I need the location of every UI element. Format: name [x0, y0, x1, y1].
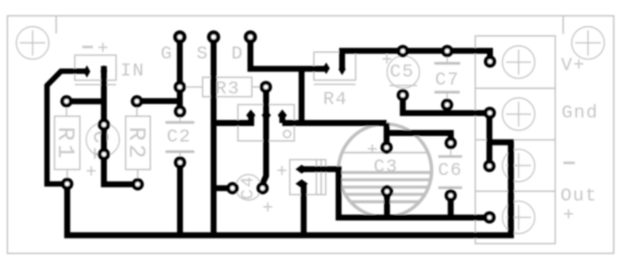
wire IN+ through C1 to R2 bottom [104, 66, 138, 184]
capacitor C2 outline [166, 111, 195, 162]
connector OUT outline [290, 160, 326, 195]
label C5 plus [381, 50, 392, 71]
pad terminal minus [483, 160, 495, 172]
pad C1 bottom [98, 148, 110, 160]
wire C5- to Gnd pad [403, 95, 490, 113]
pad R2 top [131, 95, 143, 107]
label Out plus [563, 205, 574, 226]
label C4 plus [262, 198, 273, 219]
wire R3 right to Q1 pin2 and C4 right [263, 87, 267, 188]
connector IN outline [75, 55, 116, 85]
label IN polarity - + [97, 39, 108, 60]
label R1 [51, 127, 78, 162]
wire OUT- pin to ground bus [301, 184, 307, 236]
mounting hole left [16, 27, 49, 60]
terminal block outline [475, 36, 555, 244]
wire D branch to Q1 pin3 and C3+ [282, 69, 386, 148]
svg-text:R4: R4 [323, 89, 348, 110]
pad C6 bottom [445, 189, 457, 201]
svg-text:S: S [197, 43, 208, 64]
pad R4 right diamond [339, 64, 346, 76]
wire R1 top to IN+ [67, 98, 105, 104]
capacitor C6 outline [438, 143, 462, 196]
pad R4 left diamond [323, 63, 330, 75]
pad S [207, 30, 220, 43]
board edge tick left [55, 16, 57, 34]
pad C4 right [256, 182, 268, 194]
label C1 plus [86, 162, 97, 183]
mounting hole right [572, 27, 605, 60]
pad D [244, 30, 257, 43]
label D [231, 43, 242, 64]
label S [197, 43, 208, 64]
transistor Q1 outline [238, 105, 294, 141]
pad terminal plus [483, 211, 495, 223]
terminal screw minus [502, 149, 534, 181]
pad C1 top [98, 119, 110, 131]
wire G pin down to C2 top [177, 37, 183, 111]
wire Gnd pad to minus pad [486, 113, 492, 166]
svg-text:+: + [97, 39, 108, 60]
label Out [561, 186, 598, 207]
label C3 [374, 157, 399, 178]
capacitor C7 outline [434, 51, 460, 105]
resistor R1 outline [55, 101, 80, 184]
svg-text:Gnd: Gnd [562, 102, 599, 123]
pad C2 top [174, 105, 186, 117]
label C3 plus [367, 140, 378, 161]
pad R3 right [260, 81, 272, 93]
label C6 [438, 160, 463, 181]
label C5 [390, 62, 415, 83]
svg-text:C6: C6 [438, 160, 463, 181]
svg-text:D: D [231, 43, 242, 64]
terminal screw V+ [502, 46, 534, 78]
terminal screw Gnd [502, 98, 534, 130]
board edge tick right [562, 16, 564, 34]
svg-text:+: + [86, 162, 97, 183]
label C7 [435, 69, 460, 90]
pad OUT+ diamond [296, 165, 308, 174]
svg-text:+: + [262, 198, 273, 219]
wire R2 top to gate [137, 98, 180, 104]
svg-text:IN: IN [120, 60, 145, 81]
wire OUT+ net [302, 169, 490, 217]
wire C3+ to C6 top [387, 133, 451, 143]
label R4 [323, 89, 348, 110]
svg-text:R1: R1 [51, 127, 78, 162]
ground bus wire [67, 142, 511, 235]
label V+ [561, 55, 586, 76]
pad C3 minus [381, 185, 393, 197]
label R3 [215, 78, 240, 99]
wire R4 right to V+ rail [342, 51, 490, 70]
svg-text:R2: R2 [122, 127, 149, 162]
wire C2 bottom to ground bus [177, 163, 183, 236]
pad IN+ diamond [101, 65, 108, 77]
capacitor C1 outline [86, 123, 119, 156]
wire IN- to R1 bottom [47, 71, 87, 184]
resistor R2 outline [126, 101, 151, 184]
capacitor C3 outline [338, 124, 431, 217]
pad C6 top [445, 137, 457, 149]
svg-text:C5: C5 [390, 62, 415, 83]
pad OUT- diamond [296, 179, 308, 188]
capacitor C5 outline [387, 56, 419, 88]
pad C2 bottom [174, 156, 186, 168]
svg-text:C7: C7 [435, 69, 460, 90]
pad terminal Gnd [484, 107, 496, 119]
pad G [173, 30, 186, 43]
wire S pin to ground bus [211, 37, 217, 235]
label G [161, 43, 172, 64]
svg-text:C4: C4 [239, 175, 259, 200]
svg-text:+: + [276, 161, 287, 182]
pad C5 top [397, 45, 409, 57]
svg-text:C2: C2 [167, 127, 192, 148]
pad terminal V+ [484, 55, 496, 67]
svg-text:R3: R3 [215, 78, 240, 99]
pad C7 top [441, 45, 453, 57]
label Gnd [562, 102, 599, 123]
label C1 [87, 130, 112, 162]
pad R1 bottom [61, 178, 73, 190]
resistor R3 outline [180, 77, 266, 96]
svg-text:V+: V+ [561, 55, 586, 76]
label C4 [239, 175, 259, 200]
label minus [563, 162, 575, 164]
label IN [120, 60, 145, 81]
pad Q1 pin1 diamond [246, 110, 255, 122]
pad R1 top [60, 95, 72, 107]
svg-text:+: + [563, 205, 574, 226]
terminal screw plus [502, 201, 534, 233]
resistor R4 outline [314, 52, 356, 84]
pad C3 plus [380, 141, 392, 153]
wire S branch to Q1 pin1 [214, 113, 252, 123]
svg-text:+: + [367, 140, 378, 161]
pad Q1 pin3 diamond [278, 110, 287, 122]
pad Q1 pin2 diamond [262, 110, 271, 122]
wire D pin to R4 left [250, 37, 326, 69]
svg-text:G: G [161, 43, 172, 64]
label C2 [167, 127, 192, 148]
pad R2 bottom [132, 178, 144, 190]
pad C7 bottom [441, 99, 453, 111]
pad R3 left [174, 81, 186, 93]
capacitor C4 outline [236, 175, 262, 201]
wire S branch to C4 left [214, 185, 233, 191]
pad C4 left [226, 182, 238, 194]
pad IN- diamond [84, 65, 91, 77]
label OUT plus [276, 161, 287, 182]
label R2 [122, 127, 149, 162]
pad C5 bottom [397, 89, 409, 101]
svg-text:Out: Out [561, 186, 598, 207]
